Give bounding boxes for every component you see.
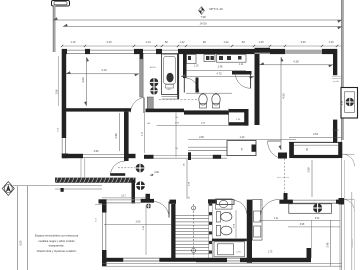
sum south wall bbox=[196, 258, 311, 262]
svg-text:4.75: 4.75 bbox=[216, 72, 222, 76]
street line 2 bbox=[27, 186, 29, 270]
wc door leaf bbox=[250, 73, 252, 88]
left wall window band bbox=[61, 138, 63, 154]
living south wall chunk bbox=[144, 155, 154, 159]
svg-text:1.75: 1.75 bbox=[236, 251, 241, 253]
bath vanity top bbox=[216, 199, 233, 209]
closet box 3 bbox=[217, 55, 247, 63]
label right upper bbox=[332, 75, 341, 77]
hall door leaf bbox=[183, 78, 185, 93]
kitchen cabinet bbox=[147, 97, 153, 110]
quincho west wall bbox=[255, 54, 260, 125]
bedroom3 dim 2.50 bbox=[104, 224, 171, 226]
kitchen door leaf bbox=[143, 98, 145, 114]
lower wing left wall window bbox=[102, 212, 104, 250]
lower wing top wall seg2 bbox=[170, 200, 177, 204]
wc bidet bbox=[212, 94, 220, 105]
right dim vertical 3.48 bbox=[330, 220, 332, 266]
overall dim line 14.50 bbox=[63, 26, 342, 28]
kitchen-bath wall bbox=[183, 54, 187, 78]
hall top wall west bbox=[62, 108, 131, 111]
svg-text:NPT=1.40: NPT=1.40 bbox=[209, 7, 223, 11]
svg-text:3.30: 3.30 bbox=[300, 40, 306, 44]
gallery dashes bbox=[118, 167, 135, 169]
svg-text:2.98: 2.98 bbox=[306, 167, 310, 173]
lower wing top wall seg3 bbox=[217, 198, 235, 200]
svg-text:14.50: 14.50 bbox=[200, 22, 207, 26]
svg-text:.50: .50 bbox=[175, 148, 179, 150]
svg-text:2.50: 2.50 bbox=[96, 217, 98, 222]
sum top wall T bbox=[279, 200, 293, 204]
svg-text:.50: .50 bbox=[241, 40, 245, 44]
living south window low bbox=[154, 154, 228, 156]
svg-text:3.17: 3.17 bbox=[121, 196, 126, 198]
svg-text:3.98: 3.98 bbox=[300, 224, 305, 226]
svg-text:2.80: 2.80 bbox=[201, 123, 206, 125]
hall door arc bbox=[184, 78, 199, 93]
left boundary wall bbox=[53, 5, 56, 52]
benchmark symbol NPT bbox=[199, 7, 205, 15]
right thin vertical bbox=[339, 205, 341, 270]
closet box 2 bbox=[204, 55, 215, 62]
north arrow bbox=[4, 185, 12, 193]
living vert dim x144 bbox=[143, 113, 145, 153]
svg-text:1.11: 1.11 bbox=[274, 218, 279, 220]
south dim line bbox=[188, 139, 296, 141]
top wall pier 8 bbox=[270, 49, 285, 54]
svg-text:2.80: 2.80 bbox=[143, 225, 145, 230]
lower wing top wall seg1 bbox=[99, 199, 107, 203]
bedroom3 fan dot bbox=[146, 204, 151, 209]
pass-through right wall bbox=[244, 109, 248, 126]
gallery wall to lower wing bbox=[132, 180, 136, 204]
counter corner bbox=[339, 198, 345, 205]
svg-text:Espacio semicubierto con estru: Espacio semicubierto con estructura bbox=[35, 234, 79, 238]
svg-text:1.44: 1.44 bbox=[145, 40, 151, 44]
planter box bbox=[227, 141, 256, 156]
counter right bbox=[289, 204, 332, 214]
svg-text:metálica negra y vidrio modulo: metálica negra y vidrio modulo bbox=[38, 239, 75, 243]
gallery door arc bbox=[110, 161, 125, 174]
svg-text:2.53: 2.53 bbox=[313, 132, 319, 136]
quincho dim 4.28 bbox=[260, 64, 334, 66]
svg-text:.50: .50 bbox=[164, 40, 168, 44]
cooktop burner 1 bbox=[150, 78, 159, 87]
top wall pier 2 bbox=[85, 49, 90, 54]
svg-text:.96: .96 bbox=[184, 163, 186, 167]
ceiling fan gallery 2 bbox=[136, 181, 145, 190]
lower wing top wall seg4 bbox=[336, 200, 343, 204]
bedroom2 south wall east bbox=[124, 154, 136, 158]
lower wing left wall pier1 bbox=[102, 200, 107, 213]
svg-text:7.98: 7.98 bbox=[200, 15, 206, 19]
svg-text:mesada: mesada bbox=[332, 130, 340, 132]
bedroom1/kitchen divider wall bbox=[140, 53, 144, 59]
right boundary wall bbox=[341, 0, 344, 140]
grill niche bbox=[341, 88, 358, 119]
living vert dim x176 bbox=[175, 113, 177, 158]
svg-text:2.96: 2.96 bbox=[94, 150, 99, 153]
svg-text:.40.15: .40.15 bbox=[149, 67, 156, 69]
dim 3.17 bbox=[102, 197, 150, 199]
plumbing wall stub bbox=[196, 78, 199, 93]
top wall pier 6 bbox=[187, 49, 233, 54]
stair circle top bbox=[192, 206, 196, 210]
svg-text:1.67: 1.67 bbox=[175, 123, 180, 125]
dim 4.13 room1 bbox=[66, 73, 139, 75]
sum dim line 2 bbox=[288, 226, 340, 228]
closet south wall bbox=[232, 71, 252, 75]
svg-text:3.48: 3.48 bbox=[326, 242, 329, 247]
bedroom2 south wall west bbox=[62, 154, 83, 158]
left wall bottom corner bbox=[62, 154, 68, 159]
bedroom2 south window bbox=[83, 153, 127, 155]
svg-text:3.00: 3.00 bbox=[81, 77, 85, 83]
svg-text:4.28: 4.28 bbox=[293, 60, 299, 64]
top wall pier 1 bbox=[62, 49, 67, 54]
ceiling fan gallery 1 bbox=[136, 164, 145, 173]
bath bidet bbox=[216, 225, 220, 236]
closet box 1 bbox=[187, 55, 197, 64]
svg-text:-Diseño final y Opciones a def: -Diseño final y Opciones a definir- bbox=[36, 249, 76, 253]
gate arc 2 bbox=[343, 199, 355, 211]
kitchen counter bbox=[162, 54, 178, 95]
bath south wall jog bbox=[184, 110, 229, 114]
bottom edge line 2 bbox=[102, 265, 342, 267]
lower wing top window bbox=[107, 199, 141, 201]
svg-text:1.11: 1.11 bbox=[239, 64, 244, 66]
svg-text:1.10: 1.10 bbox=[194, 65, 199, 68]
bath cabinet east bbox=[252, 200, 262, 241]
bedroom3 top wall T bbox=[146, 194, 151, 200]
bath east wall bbox=[247, 200, 252, 263]
left wing dim text bbox=[95, 204, 106, 206]
stair west wall bbox=[171, 204, 175, 259]
svg-text:1.22: 1.22 bbox=[179, 40, 185, 44]
svg-text:8.00: 8.00 bbox=[20, 240, 23, 245]
svg-text:1.20: 1.20 bbox=[240, 136, 245, 139]
top wall pier 9 bbox=[322, 49, 337, 54]
dim 4.75 bbox=[181, 76, 254, 78]
svg-text:2.12: 2.12 bbox=[142, 131, 144, 136]
stair center dashed bbox=[193, 204, 195, 257]
dim 2.98 room2 bbox=[119, 113, 121, 151]
sidewalk line 1 bbox=[13, 184, 102, 186]
lower wing left wall pier2 bbox=[102, 250, 107, 267]
east wall of quincho lower bbox=[333, 120, 337, 143]
svg-text:4.13: 4.13 bbox=[101, 68, 107, 72]
east wall of quincho upper bbox=[333, 49, 337, 75]
top wall pier 7 bbox=[232, 49, 255, 54]
wc toilet bbox=[199, 94, 207, 105]
bath washer area bbox=[214, 242, 245, 257]
svg-text:.50: .50 bbox=[175, 117, 179, 119]
shower top box bbox=[217, 200, 235, 205]
svg-text:.80: .80 bbox=[242, 147, 244, 151]
sum door arc bbox=[260, 199, 279, 214]
bedroom3 door leaf bbox=[168, 202, 170, 218]
svg-text:1.16: 1.16 bbox=[70, 40, 76, 44]
dim 3.00 room1 bbox=[86, 57, 88, 106]
top wall pier 5 bbox=[178, 49, 187, 54]
bath north line bbox=[186, 92, 232, 94]
terrace A south wall bbox=[293, 155, 339, 158]
pass-through bottom wall bbox=[229, 122, 249, 125]
stair east rail bbox=[208, 204, 210, 258]
svg-text:.46: .46 bbox=[189, 196, 191, 200]
quincho south pier bbox=[278, 153, 287, 159]
svg-text:2.98: 2.98 bbox=[114, 133, 118, 139]
quincho door leaf bbox=[268, 140, 281, 142]
svg-text:2.86: 2.86 bbox=[55, 89, 58, 94]
terrace A dim 2.53 bbox=[289, 136, 342, 138]
svg-text:2.48: 2.48 bbox=[218, 65, 223, 68]
svg-text:1.00: 1.00 bbox=[58, 127, 60, 132]
bedroom3 vert dim bbox=[145, 205, 147, 255]
svg-text:transparente.: transparente. bbox=[49, 244, 65, 248]
stair treads bbox=[176, 215, 209, 217]
svg-text:1.80: 1.80 bbox=[166, 89, 171, 91]
overall dim line 7.98 bbox=[53, 19, 342, 21]
top wall pier 4 bbox=[156, 49, 162, 54]
svg-text:.80: .80 bbox=[307, 147, 309, 151]
svg-text:2.53: 2.53 bbox=[315, 218, 320, 220]
sum dim line 1 bbox=[259, 220, 340, 222]
bath door top arc bbox=[234, 201, 247, 214]
svg-text:2.08: 2.08 bbox=[234, 223, 236, 228]
svg-text:parrilla: parrilla bbox=[333, 81, 340, 83]
gate arc 1 bbox=[343, 154, 355, 166]
top wall bump bbox=[255, 48, 271, 53]
living south wall joint bbox=[188, 152, 191, 160]
sum east wall corner bbox=[307, 248, 312, 262]
pass-through left line bbox=[228, 109, 230, 126]
svg-text:2.98: 2.98 bbox=[189, 181, 191, 186]
room B dashed west edge bbox=[284, 159, 286, 200]
terrace A east pier bbox=[338, 142, 342, 158]
living south window high bbox=[188, 146, 227, 148]
kitchen counter lines bbox=[162, 96, 178, 98]
terrace A top line bbox=[289, 141, 342, 143]
hall dashed line bbox=[159, 98, 198, 100]
counter window top bbox=[293, 199, 336, 201]
left exterior wall bbox=[62, 49, 66, 138]
stair circle bottom bbox=[192, 249, 196, 253]
terrace A west pier bbox=[289, 142, 294, 158]
bedroom3 south wall bbox=[102, 258, 196, 262]
top dimension tick line bbox=[62, 45, 342, 47]
svg-text:4.82: 4.82 bbox=[154, 171, 159, 174]
right fence lines bbox=[351, 192, 353, 270]
svg-text:2.50: 2.50 bbox=[136, 220, 141, 223]
left outer dim 2.86 bbox=[57, 56, 59, 106]
sidewalk line 2 bbox=[55, 188, 102, 190]
street line 1 bbox=[17, 186, 19, 270]
svg-text:1.16: 1.16 bbox=[328, 40, 334, 44]
bath laundry divider bbox=[212, 239, 247, 242]
svg-text:medianera: medianera bbox=[352, 239, 354, 248]
stair right wall top bbox=[208, 199, 217, 203]
patio dim vertical bbox=[186, 159, 188, 199]
svg-text:1.22: 1.22 bbox=[223, 40, 229, 44]
svg-text:2.60: 2.60 bbox=[199, 136, 204, 139]
bedroom3 door arc bbox=[154, 202, 170, 218]
top wall glazing band bbox=[62, 49, 337, 51]
ceiling fan sum bbox=[313, 203, 322, 212]
closet front line bbox=[187, 69, 247, 71]
bath dim 2.08 bbox=[235, 210, 237, 238]
kitchen door arc bbox=[131, 98, 145, 113]
hall top wall east bbox=[146, 109, 185, 113]
room B dim 2.98 bbox=[311, 160, 313, 197]
svg-text:2.20: 2.20 bbox=[106, 40, 112, 44]
bedroom2 east wall bbox=[124, 112, 129, 161]
top wall pier 3 bbox=[134, 49, 143, 54]
gallery hatched wall bbox=[55, 178, 136, 183]
quincho dim 4.50 bbox=[280, 57, 282, 150]
svg-text:4.50: 4.50 bbox=[281, 93, 285, 99]
svg-text:1.75: 1.75 bbox=[268, 251, 273, 254]
corner post bbox=[61, 188, 64, 192]
gallery opening lines bbox=[80, 158, 82, 177]
water tank on roof bbox=[52, 1, 70, 7]
living dim row1 bbox=[157, 125, 229, 127]
top wall sliding window 3.30 bbox=[285, 50, 322, 54]
svg-text:piso: cemento: piso: cemento bbox=[277, 176, 289, 179]
wc door arc bbox=[235, 73, 250, 88]
quincho door arc bbox=[268, 141, 281, 159]
pass-through top wall bbox=[229, 109, 249, 112]
living south pier low bbox=[213, 155, 221, 159]
bath toilet bbox=[216, 212, 220, 223]
svg-text:1.20: 1.20 bbox=[236, 119, 241, 121]
svg-text:.80: .80 bbox=[230, 211, 232, 215]
svg-text:.96: .96 bbox=[202, 40, 206, 44]
svg-text:.80: .80 bbox=[147, 123, 151, 125]
bottom edge line 1 bbox=[102, 262, 342, 264]
cooktop burner 2 bbox=[150, 87, 158, 95]
svg-text:1.45: 1.45 bbox=[258, 40, 264, 44]
